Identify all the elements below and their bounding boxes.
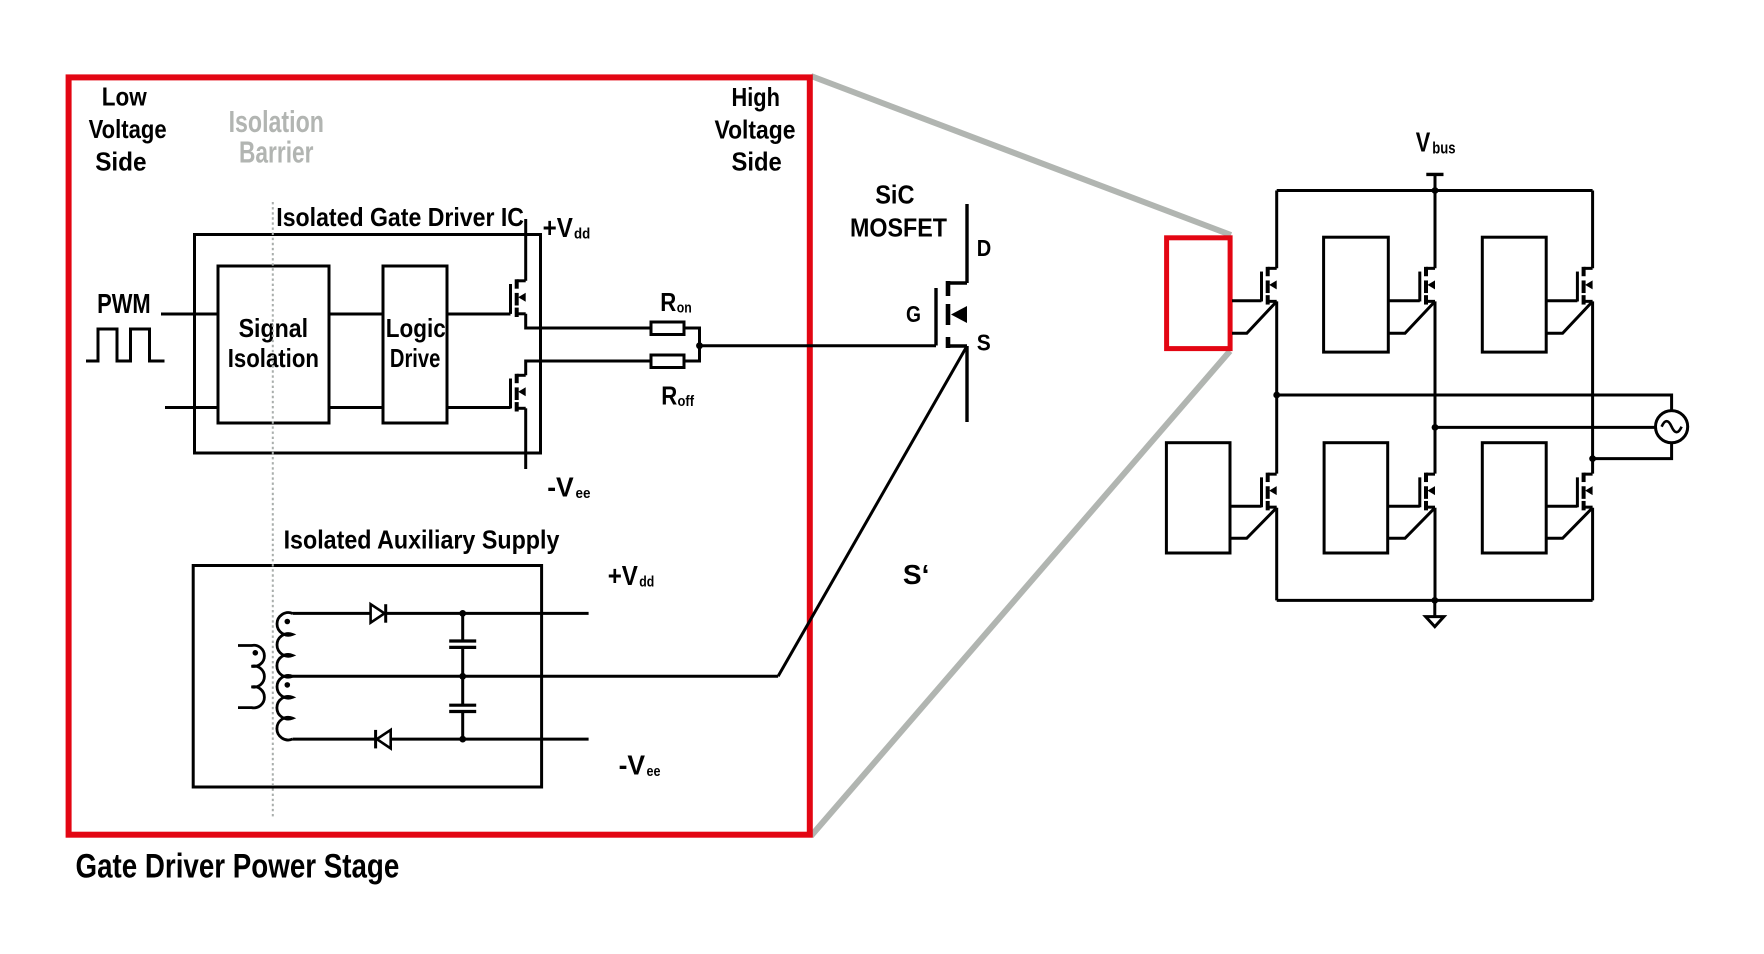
junction dot ground [1431,597,1438,604]
svg-text:V: V [1416,127,1431,158]
junction dot bottom cap [459,736,466,743]
kelvin wire Q5 [1388,508,1435,539]
wire secondary top to diode [293,612,371,615]
gate wire Q4 [1230,505,1262,508]
gate wire Q1 [1232,299,1262,302]
upper driver mosfet (totem pole) [511,279,526,317]
gate wire Q3 [1546,299,1577,302]
wire logic drive to upper driver mosfet gate [447,313,511,316]
AC source circle [1656,411,1688,443]
upper rail +Vdd to drain [524,219,527,281]
svg-text:Logic: Logic [386,313,446,343]
svg-text:Low: Low [102,82,148,112]
svg-text:R: R [660,287,676,317]
wire lower input to signal isolation [165,406,218,409]
right leg wires [1591,191,1594,269]
svg-text:S‘: S‘ [903,559,929,590]
svg-text:Isolated Gate Driver IC: Isolated Gate Driver IC [276,202,524,232]
svg-text:D: D [977,235,992,261]
Vbus terminal bar [1426,173,1443,176]
kelvin wire Q3 [1546,301,1592,333]
svg-text:Barrier: Barrier [239,134,314,169]
gate driver block top-center [1324,237,1389,352]
capacitor C2 [449,676,476,739]
svg-text:Voltage: Voltage [715,115,796,145]
capacitor C1 [449,613,476,676]
svg-text:dd: dd [574,226,590,243]
svg-text:MOSFET: MOSFET [850,213,947,243]
kelvin wire Q2 [1388,301,1435,333]
secondary phase dot lower [285,682,291,688]
gate driver block top-right [1482,237,1546,352]
svg-text:G: G [906,301,921,327]
gate wire Q6 [1546,505,1577,508]
kelvin wire Q1 [1232,301,1277,333]
svg-text:ee: ee [576,485,591,502]
wire AC bottom return [1593,443,1672,459]
svg-text:Signal: Signal [239,313,309,343]
top bus wire [1277,189,1593,192]
svg-text:Side: Side [95,146,146,176]
svg-text:on: on [677,300,692,317]
gate driver IC box [195,235,541,454]
left leg wires [1275,191,1278,269]
gate wire Q5 [1388,505,1420,508]
secondary phase dot upper [285,619,291,625]
wire signal isolation to logic drive upper [329,313,383,316]
lower driver mosfet (totem pole) [511,374,526,412]
wire Ron to junction [684,328,700,346]
junction dot center [459,673,466,680]
transformer secondary winding [277,613,293,740]
junction dot Vbus [1432,187,1439,194]
wire upper source to Ron [526,314,651,328]
auxiliary supply box [193,566,541,788]
isolation barrier dotted line [272,202,274,819]
svg-text:dd: dd [639,574,654,591]
PWM square wave icon [86,329,165,361]
red zoom box around gate driver power stage [69,77,810,834]
lower rail source to -Vee [524,408,527,469]
ground symbol [1426,617,1444,627]
wire center tap output [293,675,779,678]
svg-text:High: High [732,82,780,112]
bottom bus wire [1277,599,1593,602]
kelvin source diagonal wire S' [778,346,967,676]
middle wire phase A [1277,395,1672,411]
svg-text:-V: -V [619,750,646,781]
junction dot gate node [696,342,703,349]
transformer primary winding [238,645,264,708]
junction dot AC return [1589,455,1596,462]
lens line upper (gray) [811,76,1231,235]
junction dot top cap [459,610,466,617]
svg-text:Isolation: Isolation [228,343,319,373]
wire bus to ground [1433,600,1436,616]
junction dot phase A [1273,392,1280,399]
wire signal isolation to logic drive lower [329,406,383,409]
transistor Q4 (bottom-left) [1262,473,1277,511]
svg-text:R: R [661,381,677,411]
svg-text:PWM: PWM [97,288,151,319]
transistor Q6 (bottom-right) [1577,473,1592,511]
wire Roff to junction [684,346,700,361]
transistor Q5 (bottom-center) [1420,473,1435,511]
gate driver block bottom-center [1324,443,1388,553]
svg-text:Drive: Drive [390,343,440,373]
wire secondary bottom to diode D2 [293,738,375,741]
svg-text:Voltage: Voltage [89,114,167,144]
signal isolation box [218,266,329,423]
junction dot phase B [1432,424,1439,431]
svg-text:bus: bus [1432,138,1455,157]
svg-text:S: S [977,329,991,355]
svg-text:Side: Side [732,147,782,177]
wire gate node to SiC gate [700,344,937,347]
wire Roff to lower drain [526,361,651,375]
diode D1 (top, pointing right) [371,604,385,623]
SiC mosfet symbol [936,204,967,422]
svg-text:+V: +V [543,212,573,243]
wire PWM input to signal isolation [161,313,218,316]
lens line lower (gray) [811,351,1230,836]
middle wire phase B [1435,426,1656,429]
svg-text:ee: ee [647,763,661,780]
svg-text:-V: -V [547,472,574,503]
wire diode D1 to +Vdd output [386,612,589,615]
logic drive box [383,266,447,423]
gate driver block bottom-left [1166,443,1230,553]
svg-text:Gate Driver Power Stage: Gate Driver Power Stage [76,848,400,886]
primary phase dot [253,650,259,656]
kelvin wire Q4 [1230,508,1277,539]
transistor Q2 (top-center) [1420,267,1435,305]
highlighted gate driver red rect [1167,238,1231,349]
center leg wires [1434,191,1437,269]
transistor Q1 (top-left) [1262,267,1277,305]
resistor Roff [651,355,684,368]
svg-text:Isolated Auxiliary Supply: Isolated Auxiliary Supply [284,525,560,555]
wire logic drive to lower driver mosfet gate [447,406,511,409]
resistor Ron [651,322,684,335]
svg-text:off: off [678,393,695,410]
transistor Q3 (top-right) [1577,267,1592,305]
diode D2 (bottom, pointing left) [374,730,377,749]
svg-text:SiC: SiC [875,180,915,210]
kelvin wire Q6 [1546,508,1592,539]
wire Vbus to top bus [1434,174,1437,190]
svg-text:+V: +V [608,560,638,591]
wire diode D2 to -Vee output [391,738,589,741]
gate driver block bottom-right [1482,443,1546,553]
AC source sine [1662,421,1682,432]
gate wire Q2 [1388,299,1420,302]
